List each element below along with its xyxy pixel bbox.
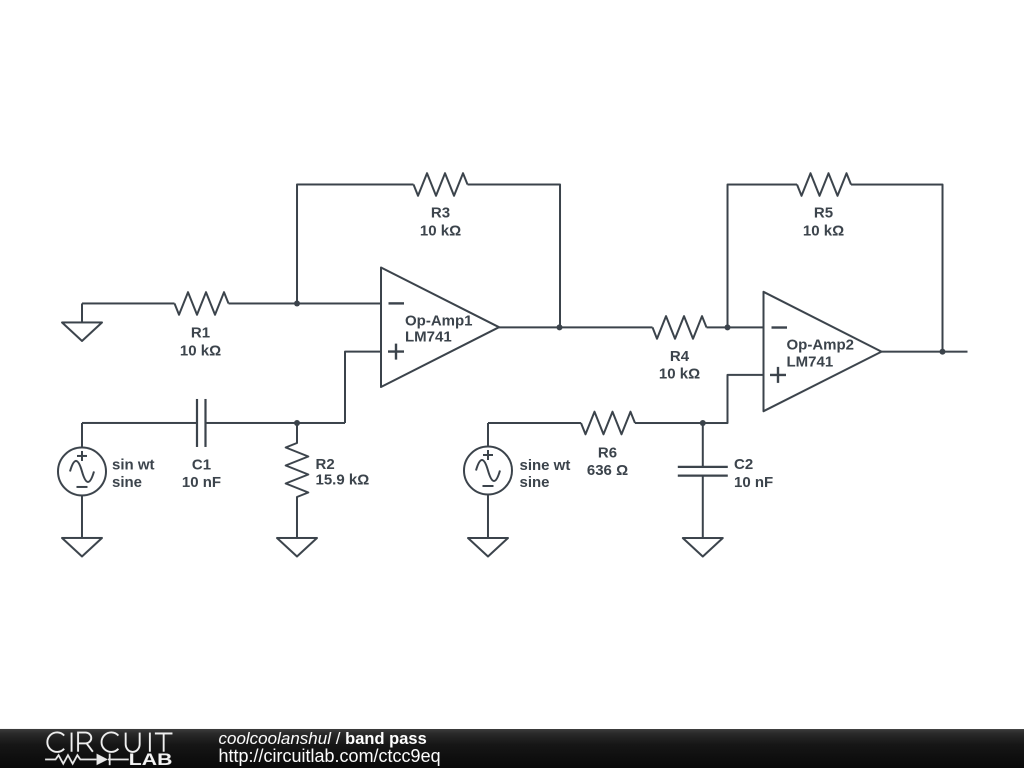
wire (728, 185, 798, 328)
svg-text:LAB: LAB (129, 750, 173, 768)
wire (345, 352, 381, 423)
resistor R4 (653, 316, 707, 339)
node E (940, 349, 946, 355)
wire (297, 184, 414, 303)
svg-text:R5: R5 (814, 205, 833, 222)
svg-text:Op-Amp2: Op-Amp2 (787, 337, 855, 354)
resistor R6 (581, 412, 635, 435)
wire (882, 351, 968, 353)
ground (277, 538, 317, 557)
svg-text:R1: R1 (191, 324, 210, 341)
svg-text:10 nF: 10 nF (182, 474, 221, 491)
resistor R5 (797, 173, 851, 196)
svg-text:sine: sine (519, 474, 549, 491)
svg-text:10 kΩ: 10 kΩ (420, 223, 461, 240)
node B (557, 324, 563, 330)
svg-text:R3: R3 (431, 205, 450, 222)
pin plus U1 (388, 344, 404, 360)
svg-text:10 kΩ: 10 kΩ (659, 365, 700, 382)
logo CIRCUIT (47, 732, 172, 752)
svg-text:C1: C1 (192, 456, 211, 473)
svg-text:LM741: LM741 (787, 354, 834, 371)
svg-text:sine wt: sine wt (519, 457, 570, 474)
wire (82, 302, 175, 304)
svg-text:sine: sine (112, 474, 142, 491)
op-amp U2 (763, 292, 881, 411)
wire (81, 495, 83, 538)
capacitor C2 (702, 423, 704, 538)
ground (468, 538, 508, 557)
svg-text:10 nF: 10 nF (734, 474, 773, 491)
pin plus U2 (770, 367, 786, 383)
resistor R1 (175, 292, 229, 315)
voltage source V2 (487, 423, 489, 447)
footer bar (0, 729, 1024, 768)
pin minus U1 (389, 302, 405, 304)
wire (487, 494, 489, 538)
wire (205, 422, 345, 424)
op-amp U1 (381, 267, 499, 387)
capacitor C1 (197, 399, 206, 447)
svg-text:636 Ω: 636 Ω (587, 462, 628, 479)
node D (725, 324, 731, 330)
pin minus U2 (772, 326, 788, 328)
ground (683, 538, 723, 557)
resistor R2 (286, 423, 309, 538)
wire (488, 422, 581, 424)
wire (707, 326, 764, 328)
svg-text:LM741: LM741 (405, 329, 452, 346)
node F (700, 420, 706, 426)
wire (82, 422, 197, 424)
svg-text:10 kΩ: 10 kΩ (803, 223, 844, 240)
voltage source V1 (81, 423, 83, 448)
svg-text:R6: R6 (598, 445, 617, 462)
wire (468, 184, 561, 327)
svg-text:15.9 kΩ: 15.9 kΩ (315, 471, 369, 488)
node C (294, 420, 300, 426)
node A (294, 300, 300, 306)
svg-text:sin wt: sin wt (112, 456, 155, 473)
wire (499, 326, 653, 328)
wire (229, 302, 381, 304)
svg-text:Op-Amp1: Op-Amp1 (405, 313, 473, 330)
resistor R3 (414, 173, 468, 196)
svg-text:R4: R4 (670, 348, 690, 365)
svg-text:C2: C2 (734, 456, 753, 473)
svg-text:R2: R2 (315, 456, 334, 473)
ground (62, 538, 102, 557)
svg-text:10 kΩ: 10 kΩ (180, 342, 221, 359)
logo squiggle and diode (45, 754, 129, 766)
wire (851, 185, 943, 352)
svg-text:http://circuitlab.com/ctcc9eq: http://circuitlab.com/ctcc9eq (218, 746, 440, 766)
wire (635, 375, 764, 423)
ground (81, 303, 83, 322)
